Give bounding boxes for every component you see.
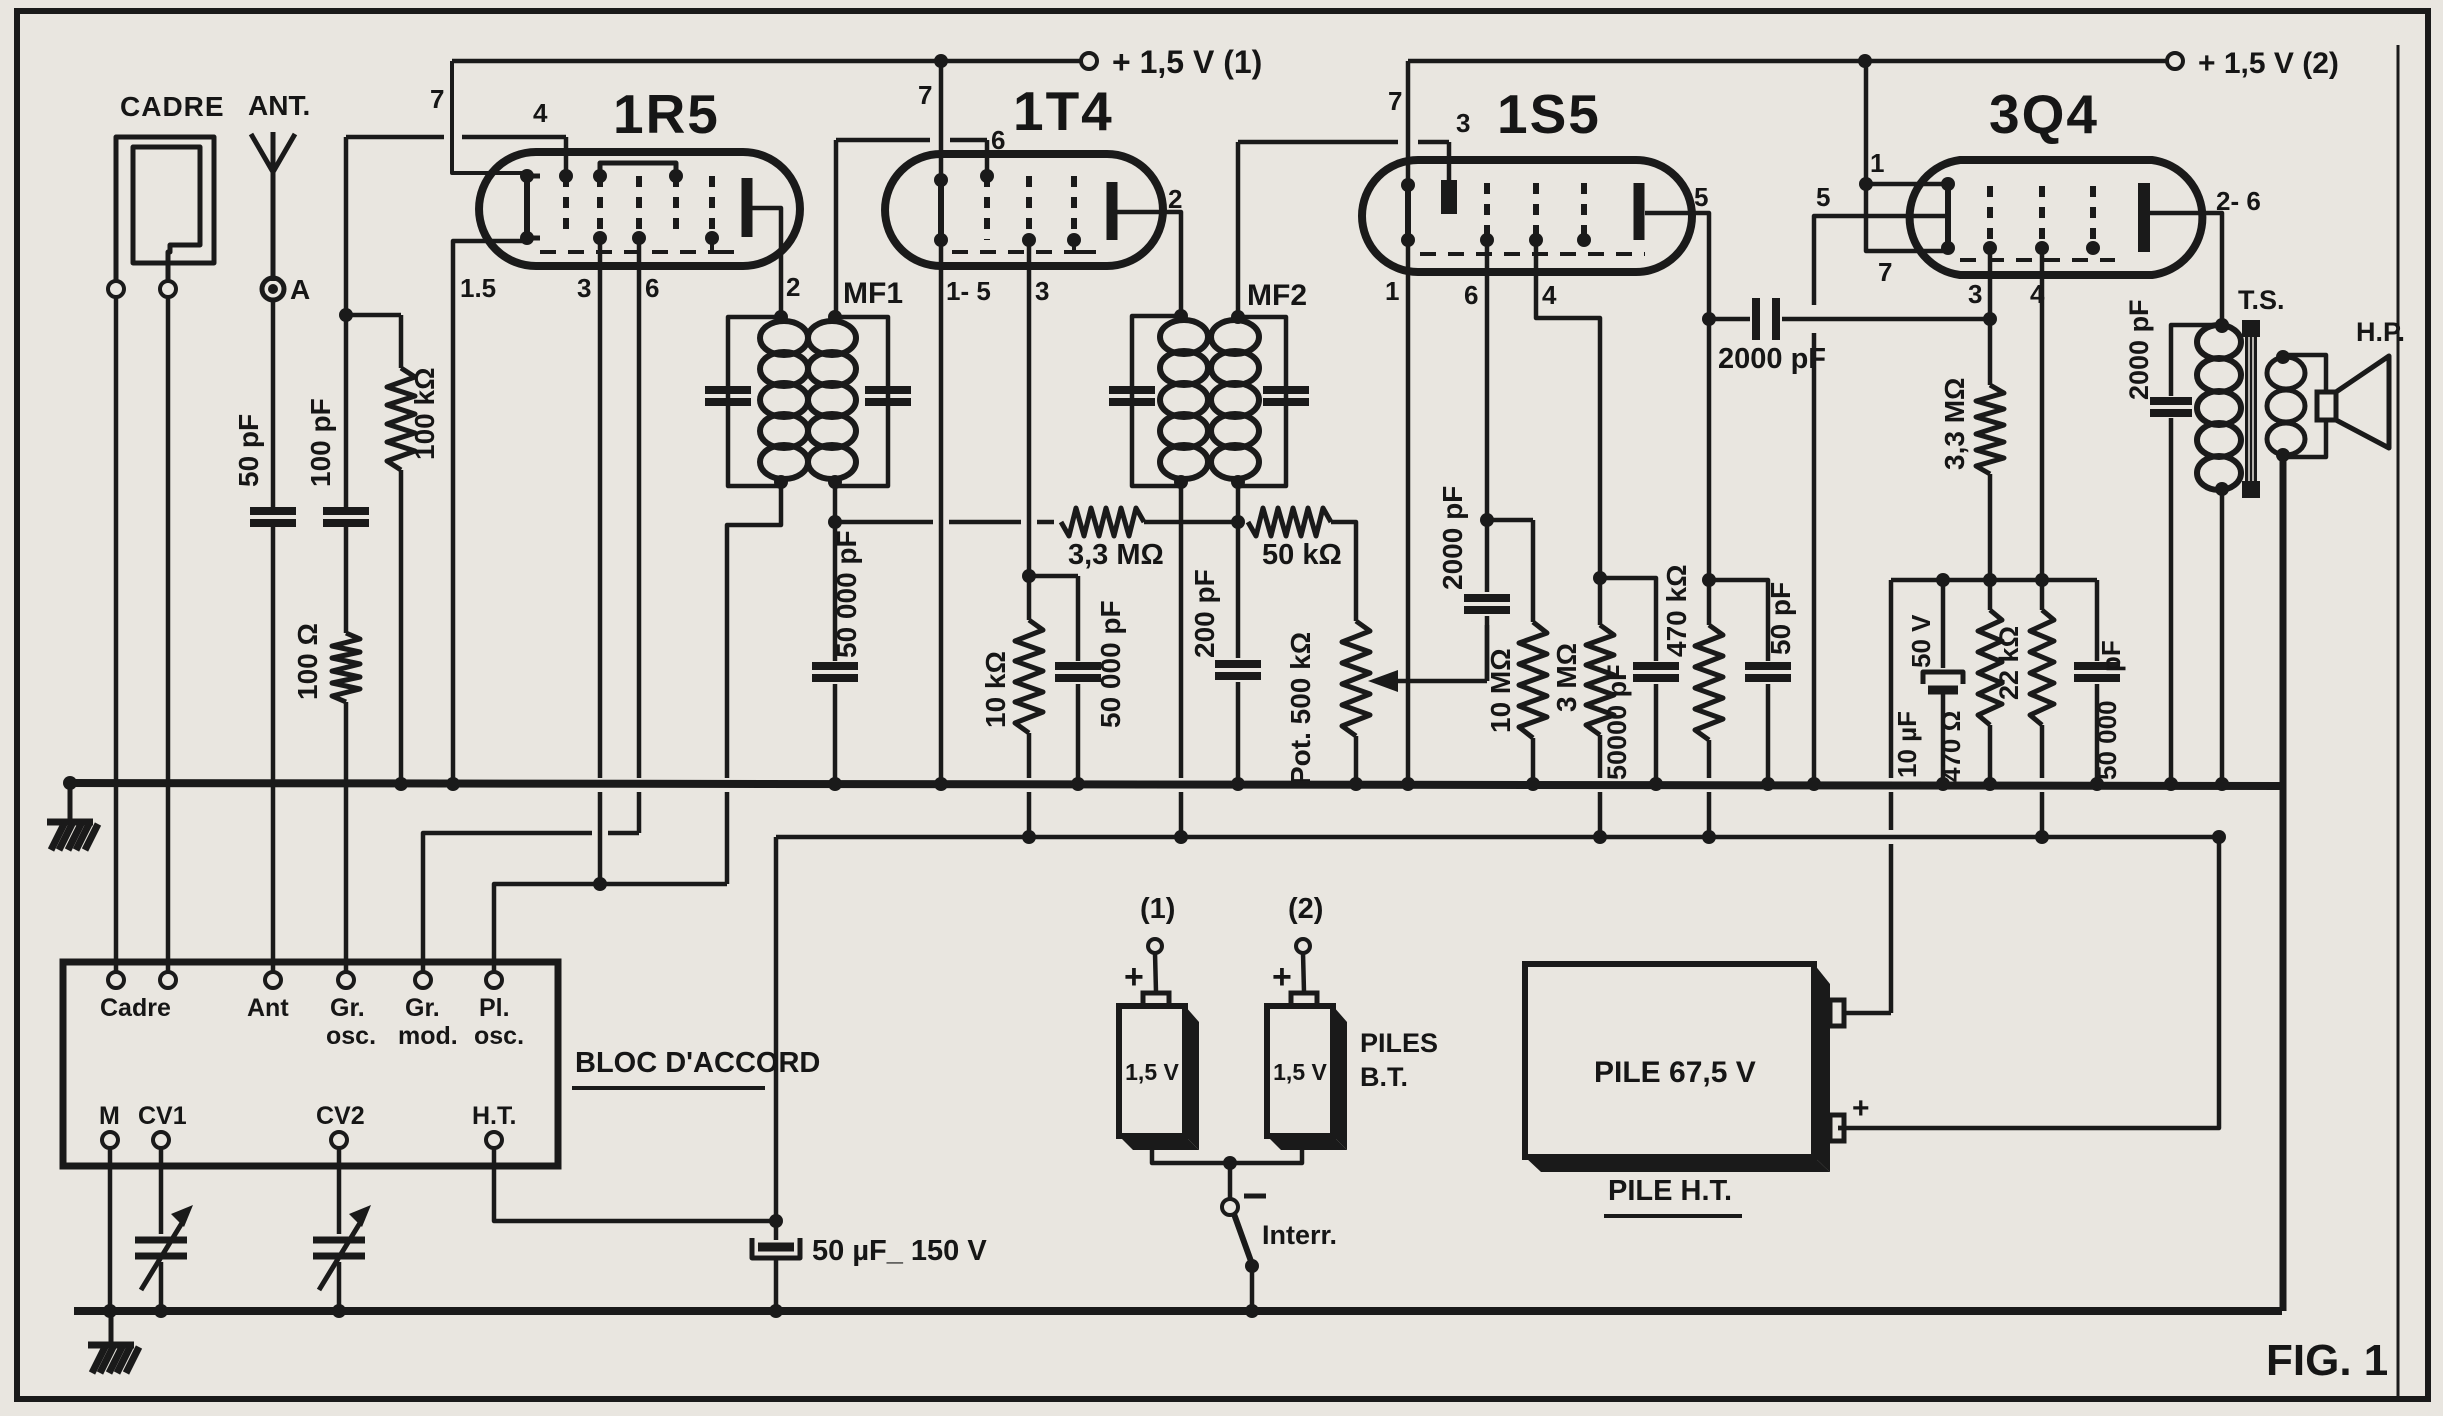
transformer TS secondary <box>2267 350 2305 462</box>
terminal Pl.osc <box>474 972 524 1050</box>
transformer TS core <box>2242 320 2260 498</box>
ground symbol left <box>47 783 98 850</box>
wire 3Q4 pin1 drop <box>1859 61 1873 191</box>
tube 1S5 plate <box>1634 183 1645 240</box>
capacitor 50 uF 150V <box>752 1235 987 1318</box>
svg-text:3,3 MΩ: 3,3 MΩ <box>1939 378 1970 470</box>
svg-text:(2): (2) <box>1288 893 1323 925</box>
wire 1T4 filament to bus <box>934 240 948 791</box>
tube 3Q4 grid G2 <box>2035 186 2049 255</box>
label 1R5 <box>613 83 720 145</box>
MF1 secondary coil <box>808 310 856 489</box>
wire MF1 primary bottom jog <box>727 486 781 884</box>
label T.S. <box>2238 285 2285 315</box>
tube 1R5 grid G2 <box>593 169 607 245</box>
svg-text:3: 3 <box>577 273 591 303</box>
label pin 3 (3Q4) <box>1968 279 1982 309</box>
wire node to pin4 riser <box>339 137 353 322</box>
resistor 3,3 MOhm (grid) <box>1939 319 2004 474</box>
wire TS secondary to speaker <box>2283 355 2326 457</box>
variable capacitor CV1 <box>135 1205 193 1290</box>
terminal Gr.mod <box>398 972 458 1050</box>
wire HT plus <box>1838 1126 1844 1131</box>
terminal cadre left <box>108 281 124 297</box>
wire 1R5 filament return <box>446 241 527 791</box>
label + pile 1 <box>1124 958 1144 996</box>
tube 1S5 diode plate <box>1441 180 1457 214</box>
wire 50000pF 1T4 to bus <box>1071 684 1085 791</box>
svg-text:2: 2 <box>1168 184 1182 214</box>
capacitor 50 pF <box>1745 582 1796 678</box>
label 3Q4 <box>1989 83 2099 145</box>
terminal M <box>99 1102 120 1148</box>
battery 1,5V (2) <box>1267 993 1347 1150</box>
wire 1S5 plate out <box>1645 213 1716 326</box>
wire 3M to B+ rail <box>1593 735 1607 844</box>
svg-text:7: 7 <box>918 80 932 110</box>
capacitor 10 uF electrolytic <box>1892 573 1963 791</box>
svg-text:Cadre: Cadre <box>100 994 171 1022</box>
svg-text:7: 7 <box>430 84 444 114</box>
svg-text:A: A <box>290 274 310 305</box>
svg-text:3 MΩ: 3 MΩ <box>1551 643 1582 712</box>
svg-text:10 µF: 10 µF <box>1892 711 1922 778</box>
wire wiper junction <box>1485 625 1490 681</box>
svg-text:Pot. 500 kΩ: Pot. 500 kΩ <box>1285 632 1316 785</box>
wire 50000pF to bus <box>828 684 842 791</box>
capacitor 50 pF <box>233 414 296 523</box>
label + HT <box>1852 1092 1870 1125</box>
label pin 1 (3Q4) <box>1870 148 1884 178</box>
svg-text:Gr.: Gr. <box>405 994 440 1022</box>
label pin 2 (1R5) <box>786 272 800 302</box>
svg-text:B.T.: B.T. <box>1360 1062 1408 1092</box>
svg-text:10 kΩ: 10 kΩ <box>980 651 1011 728</box>
label pin 7 (3Q4) <box>1878 257 1892 287</box>
svg-text:2: 2 <box>786 272 800 302</box>
wire 3Q4 filament tap (pin 5) <box>1807 216 1948 791</box>
speaker H.P. <box>2317 356 2389 448</box>
tube 1R5 envelope <box>479 152 800 266</box>
wire 3Q4 pin3 down <box>1983 248 1997 326</box>
wire plate node to 50pF <box>1709 580 1768 661</box>
battery 1,5V (1) <box>1119 993 1199 1150</box>
wire screen cap to bus <box>1649 684 1663 791</box>
wire: +1.5V rail (1) <box>452 54 1080 68</box>
label pin 2-6 (3Q4) <box>2216 186 2261 216</box>
wire piles common <box>1152 1150 1302 1199</box>
label pin 3 (1T4) <box>1035 276 1049 306</box>
terminal H.T. <box>472 1102 516 1148</box>
svg-text:4: 4 <box>1542 280 1557 310</box>
svg-text:1,5 V: 1,5 V <box>1273 1059 1327 1085</box>
wire MF2 junction to 200pF <box>1236 522 1241 658</box>
wire cadre left to Cadre terminal <box>114 297 119 972</box>
wire MF1 secondary bottom <box>828 482 842 661</box>
tube 1T4 filament <box>934 173 948 247</box>
label H.P. <box>2356 317 2405 347</box>
wire MF2 secondary bottom <box>1231 482 1245 529</box>
svg-text:3: 3 <box>1035 276 1049 306</box>
tube 1T4 envelope <box>885 154 1163 266</box>
svg-text:Gr.: Gr. <box>330 994 365 1022</box>
svg-text:50 µF_ 150 V: 50 µF_ 150 V <box>812 1235 987 1267</box>
label CADRE <box>120 91 225 122</box>
wire H.T. to B+ leg <box>494 1148 776 1221</box>
tube 1R5 grid G1 <box>559 169 573 238</box>
capacitor MF1 primary <box>705 390 751 402</box>
svg-text:50 pF: 50 pF <box>233 414 264 487</box>
label pin 5 (1S5) <box>1694 182 1708 212</box>
svg-text:CV2: CV2 <box>316 1102 365 1130</box>
terminal A <box>262 274 310 305</box>
svg-text:2000 pF: 2000 pF <box>1718 343 1826 375</box>
svg-text:200 pF: 200 pF <box>1189 569 1220 658</box>
svg-text:50 pF: 50 pF <box>1765 582 1796 655</box>
bottom rail B- <box>74 1307 2282 1315</box>
wire R: Pl.osc to MF1 primary <box>494 884 727 972</box>
wire 1S5 pin4 jog <box>1536 240 1607 585</box>
MF1 secondary frame <box>835 317 888 486</box>
svg-text:3Q4: 3Q4 <box>1989 83 2099 145</box>
resistor 3 MOhm (screen) <box>1551 578 1614 735</box>
label (1) <box>1140 893 1175 925</box>
wire A down <box>271 300 276 507</box>
resistor 100 Ohm <box>292 623 360 702</box>
tube 1T4 grid G3 <box>1067 176 1081 247</box>
resistor 10 kOhm <box>980 576 1043 733</box>
label pin 3 (1R5) <box>577 273 591 303</box>
label pin 1-5 (1T4) <box>946 276 991 306</box>
wire 100ohm to Gr.osc terminal <box>344 702 349 972</box>
wire bias node to 50000pF <box>2095 580 2100 661</box>
svg-text:50 000 pF: 50 000 pF <box>831 530 862 658</box>
tube 1R5 filament <box>520 169 540 245</box>
svg-text:3,3 MΩ: 3,3 MΩ <box>1068 539 1164 571</box>
wire pin3 node right <box>1029 576 1078 661</box>
svg-text:1S5: 1S5 <box>1497 83 1601 145</box>
MF2 secondary coil <box>1211 310 1259 489</box>
label BLOC D'ACCORD <box>572 1047 820 1088</box>
label 1S5 <box>1497 83 1601 145</box>
wire 3Q4 pin4 down <box>2035 248 2049 587</box>
svg-text:mod.: mod. <box>398 1022 458 1050</box>
svg-text:470 kΩ: 470 kΩ <box>1661 564 1692 657</box>
svg-text:50000 pF: 50000 pF <box>1602 664 1632 780</box>
svg-text:osc.: osc. <box>326 1022 376 1050</box>
svg-text:3: 3 <box>1968 279 1982 309</box>
capacitor MF2 primary <box>1109 390 1155 402</box>
wire 10M to bus <box>1526 738 1540 791</box>
wire 1T4 plate to MF2 <box>1112 212 1181 316</box>
svg-text:+: + <box>1124 958 1144 996</box>
terminal +1,5V (1) <box>1081 44 1262 80</box>
tube 1S5 grid G1 <box>1480 183 1494 247</box>
resistor 10 MOhm <box>1485 520 1547 738</box>
terminal Gr.osc <box>326 972 376 1050</box>
label pin 4 (3Q4) <box>2030 279 2045 309</box>
wire 1R5 pin4 from osc node <box>346 137 566 176</box>
label pin 1.5 (1R5) <box>460 273 496 303</box>
svg-text:4: 4 <box>533 98 548 128</box>
wire CV1 bottom <box>154 1262 168 1318</box>
svg-text:Interr.: Interr. <box>1262 1220 1337 1250</box>
svg-text:M: M <box>99 1102 120 1130</box>
label pin 3 (1S5) <box>1456 108 1470 138</box>
bloc d'accord box <box>63 962 558 1166</box>
wire 50k to pot <box>1331 522 1356 621</box>
terminal CV1 <box>138 1102 187 1148</box>
pot wiper arrow <box>1368 670 1487 692</box>
svg-text:osc.: osc. <box>474 1022 524 1050</box>
svg-text:ANT.: ANT. <box>248 90 310 121</box>
tube 1R5 grid G3 <box>632 176 646 245</box>
antenna symbol <box>251 132 295 281</box>
wire 3Q4 plate out <box>2150 213 2229 332</box>
label pin 1 (1S5) <box>1385 276 1399 306</box>
wire Q: B+ rail <box>776 830 2226 1128</box>
label Interr. <box>1262 1220 1337 1250</box>
wire P: Gr.mod to 1R5 pin6 <box>423 833 639 972</box>
svg-text:2000 pF: 2000 pF <box>1437 486 1468 590</box>
svg-text:7: 7 <box>1388 86 1402 116</box>
tube 3Q4 grid G1 <box>1983 186 1997 255</box>
terminal CV2 <box>316 1102 365 1148</box>
svg-text:FIG. 1: FIG. 1 <box>2266 1336 2388 1385</box>
wire 22k to B+ rail <box>2035 725 2049 844</box>
label pin 7 (1T4) <box>918 80 932 110</box>
label pin 6 (1T4) <box>991 125 1005 155</box>
capacitor 200 pF <box>1189 569 1261 676</box>
svg-text:100 kΩ: 100 kΩ <box>409 367 440 460</box>
svg-text:MF2: MF2 <box>1247 279 1307 312</box>
svg-text:Ant: Ant <box>247 994 289 1022</box>
terminal +1,5V (2) <box>2167 47 2339 80</box>
variable capacitor CV2 <box>313 1205 371 1290</box>
terminal Cadre 1 <box>108 972 124 988</box>
tube 1T4 inner base dashes <box>952 250 1095 254</box>
capacitor 2000 pF (plate) <box>2124 299 2222 791</box>
tube 1R5 grid G4 <box>669 169 683 238</box>
wire 1R5 pin7 <box>452 61 527 173</box>
wire 1T4 pin6 from MF1 sec <box>836 140 987 317</box>
wire 3Q4 filament loop <box>1866 184 1948 251</box>
wire 100pF to 100ohm <box>344 523 349 633</box>
label pin 7 (1R5) <box>430 84 444 114</box>
wire M to bottom rail <box>103 1148 117 1318</box>
tube 3Q4 inner base dashes <box>1960 258 2115 262</box>
wire 1R5 pin3 down <box>593 238 607 891</box>
wire CV1 top <box>159 1148 164 1234</box>
svg-text:CV1: CV1 <box>138 1102 187 1130</box>
svg-text:10 MΩ: 10 MΩ <box>1485 648 1516 733</box>
svg-text:+ 1,5 V (1): + 1,5 V (1) <box>1112 44 1262 80</box>
svg-text:1,5 V: 1,5 V <box>1125 1059 1179 1085</box>
tube 1S5 filament <box>1401 178 1415 247</box>
tube 1R5 G5 hook <box>712 238 734 252</box>
resistor 470 kOhm <box>1661 319 1723 740</box>
capacitor 2000 pF (coupling) <box>1709 298 1990 375</box>
terminal Cadre 2 <box>160 972 176 988</box>
svg-text:PILES: PILES <box>1360 1028 1438 1058</box>
wire 2000pF to wiper <box>1485 616 1490 681</box>
label FIG. 1 <box>2266 1336 2388 1385</box>
tube 3Q4 plate <box>2138 183 2150 252</box>
capacitor 50000 pF (MF1) <box>812 530 862 678</box>
transformer TS primary <box>2197 319 2241 791</box>
label PILE H.T. <box>1604 1175 1742 1216</box>
svg-text:+: + <box>1272 958 1292 996</box>
svg-text:5: 5 <box>1816 182 1830 212</box>
svg-text:6: 6 <box>645 273 659 303</box>
wire pot to bus <box>1349 736 1363 791</box>
capacitor 100 pF <box>305 398 369 523</box>
label ANT. <box>248 90 310 121</box>
label MF2 <box>1247 279 1307 312</box>
svg-text:1: 1 <box>1385 276 1399 306</box>
tube 1T4 grid G2 <box>1022 176 1036 247</box>
capacitor MF1 secondary <box>865 390 911 402</box>
label PILES B.T. <box>1360 1028 1438 1092</box>
wire 100k top lead <box>399 315 404 368</box>
wire 470k to B+ rail <box>1702 740 1716 844</box>
label + pile 2 <box>1272 958 1292 996</box>
svg-text:BLOC D'ACCORD: BLOC D'ACCORD <box>575 1047 820 1079</box>
svg-text:H.P.: H.P. <box>2356 317 2405 347</box>
label pin 7 (1S5) <box>1388 86 1402 116</box>
tube 1R5 inner base dashes <box>540 250 725 254</box>
label pin 5 (3Q4) <box>1816 182 1830 212</box>
svg-text:100 Ω: 100 Ω <box>292 623 323 700</box>
svg-text:6: 6 <box>1464 280 1478 310</box>
capacitor 2000 pF (grid) <box>1437 486 1510 610</box>
wire 10k to B+ rail <box>1022 733 1036 844</box>
wire 1S5 pin7 through-line <box>1406 61 1411 185</box>
svg-text:1: 1 <box>1870 148 1884 178</box>
tube 3Q4 filament <box>1941 177 1955 255</box>
main bus B- <box>63 776 2282 790</box>
tube 1T4 grid G1 <box>980 169 994 240</box>
resistor 50 kOhm <box>1248 508 1342 571</box>
resistor 3,3 MOhm (AVC) <box>836 508 1238 571</box>
wire 3.3M to bias node <box>1983 474 1997 587</box>
svg-text:100 pF: 100 pF <box>305 398 336 487</box>
wire: +1.5V rail (2) <box>1408 54 2166 68</box>
capacitor 50000 pF (1T4) <box>1055 600 1126 728</box>
tube 1S5 envelope <box>1362 160 1692 272</box>
resistor 470 Ohm <box>1936 580 2002 791</box>
label pin 4 (1S5) <box>1542 280 1557 310</box>
svg-text:5: 5 <box>1694 182 1708 212</box>
svg-text:22 kΩ: 22 kΩ <box>1994 626 2024 700</box>
wire 1S5 pin1 to bus <box>1401 240 1415 791</box>
terminal Ant <box>247 972 289 1022</box>
svg-text:1T4: 1T4 <box>1013 80 1114 142</box>
ground symbol bottom <box>88 1311 139 1373</box>
svg-text:1R5: 1R5 <box>613 83 720 145</box>
wire screen node to 50000pF <box>1600 578 1656 661</box>
terminal pile 2 <box>1296 939 1310 992</box>
wire 50pF to Ant terminal <box>271 523 276 972</box>
wire 1R5 pin6 down <box>637 238 642 833</box>
capacitor 50000 pF (screen) <box>1602 664 1679 780</box>
svg-text:470 Ω: 470 Ω <box>1936 711 1966 782</box>
svg-text:Pl.: Pl. <box>479 994 510 1022</box>
tube 1S5 grid G2 <box>1529 183 1543 247</box>
wire CV2 bottom <box>332 1262 346 1318</box>
wire 1T4 pin3 down <box>1022 240 1036 583</box>
resistor 100 kOhm <box>387 367 440 470</box>
wire HT- riser <box>1889 580 1894 1013</box>
MF1 primary frame <box>728 317 781 486</box>
wire 1R5 plate to MF1 <box>747 208 781 317</box>
wire 50pF to bus <box>1761 684 1775 791</box>
svg-text:3: 3 <box>1456 108 1470 138</box>
wire 200pF to bus <box>1231 682 1245 791</box>
svg-text:50 V: 50 V <box>1906 614 1936 668</box>
MF2 primary frame <box>1132 316 1181 486</box>
wire 100k to bus <box>394 470 408 791</box>
wire MF2 primary bottom to B+ <box>1174 486 1188 844</box>
tube 3Q4 grid G3 <box>2086 186 2100 255</box>
tube 1R5 plate <box>742 178 753 237</box>
wire cadre right to Cadre terminal <box>166 297 171 972</box>
svg-text:7: 7 <box>1878 257 1892 287</box>
wire 1S5 diode from MF2 sec <box>1238 142 1449 317</box>
svg-text:1- 5: 1- 5 <box>946 276 991 306</box>
terminal pile 1 <box>1148 939 1162 992</box>
wire node down to 100pF <box>344 315 349 507</box>
svg-text:pF: pF <box>2096 640 2126 672</box>
label 1T4 <box>1013 80 1114 142</box>
svg-text:MF1: MF1 <box>843 277 903 310</box>
svg-text:6: 6 <box>991 125 1005 155</box>
label (2) <box>1288 893 1323 925</box>
capacitor MF2 secondary <box>1263 390 1309 402</box>
svg-text:2000 pF: 2000 pF <box>2124 299 2154 400</box>
label pin 4 (1R5) <box>533 98 548 128</box>
svg-text:PILE H.T.: PILE H.T. <box>1608 1175 1732 1207</box>
wire output cap to bus <box>2090 684 2104 791</box>
wire 10M junction <box>1487 518 1533 523</box>
wire speaker return <box>2280 457 2287 1311</box>
wire 1S5 pin6 down <box>1480 240 1494 592</box>
tube 3Q4 envelope <box>1910 160 2203 275</box>
MF2 primary coil <box>1160 309 1208 489</box>
tube 1T4 plate <box>1107 182 1118 240</box>
svg-text:50 kΩ: 50 kΩ <box>1262 539 1342 571</box>
potentiometer 500 kOhm <box>1285 621 1370 785</box>
svg-text:1.5: 1.5 <box>460 273 496 303</box>
capacitor 50000 pF (output) <box>2074 640 2126 780</box>
svg-text:+: + <box>1852 1092 1870 1125</box>
tube 1S5 grid G3 <box>1577 183 1591 247</box>
wire B+ left leg <box>769 837 783 1240</box>
tube 1R5 grid G5 <box>705 176 719 245</box>
svg-text:50 000 pF: 50 000 pF <box>1095 600 1126 728</box>
battery PILE 67,5V <box>1525 964 1844 1172</box>
svg-text:CADRE: CADRE <box>120 91 225 122</box>
tube 1T4 G3 hook <box>1074 240 1096 252</box>
label pin 6 (1R5) <box>645 273 659 303</box>
label pin 6 (1S5) <box>1464 280 1478 310</box>
wire bias node line <box>1891 578 2097 583</box>
wire 1T4 pin7 through-line <box>939 61 944 180</box>
svg-text:T.S.: T.S. <box>2238 285 2285 315</box>
tube 1S5 inner base dashes <box>1420 252 1645 256</box>
tube 1R5 screen bracket <box>600 163 676 176</box>
label Cadre <box>100 994 171 1022</box>
